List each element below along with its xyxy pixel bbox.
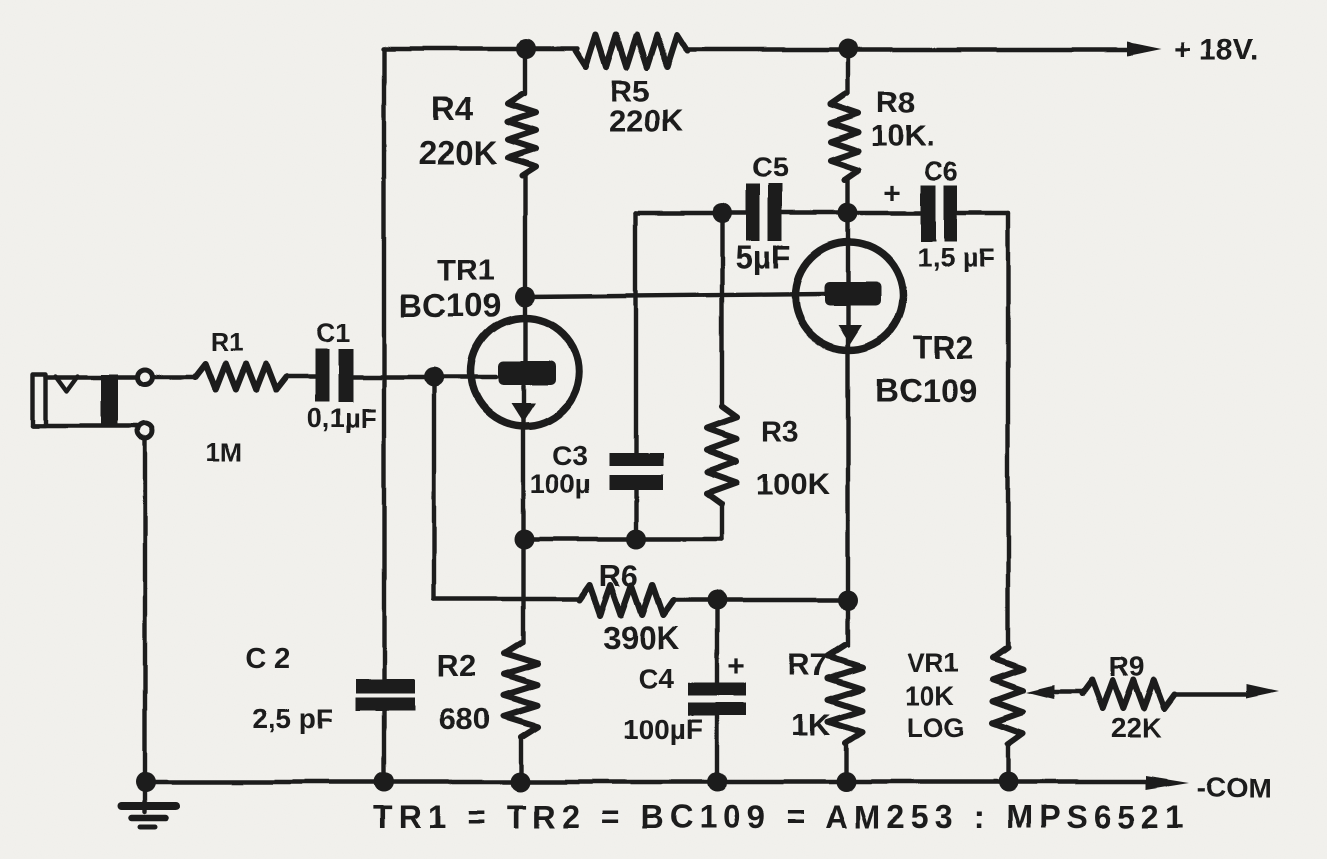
svg-text:680: 680	[439, 701, 491, 736]
svg-text:+ 18V.: + 18V.	[1174, 34, 1259, 67]
svg-text:5µF: 5µF	[735, 239, 791, 275]
svg-text:LOG: LOG	[907, 713, 966, 743]
svg-text:BC109: BC109	[875, 372, 978, 409]
svg-text:C1: C1	[316, 318, 351, 348]
svg-text:BC109: BC109	[399, 287, 502, 324]
svg-text:220K: 220K	[609, 103, 684, 138]
svg-text:C3: C3	[552, 440, 588, 471]
svg-text:1M: 1M	[206, 437, 242, 467]
svg-text:C5: C5	[752, 152, 788, 183]
svg-text:C6: C6	[924, 156, 957, 186]
svg-text:TR1: TR1	[438, 254, 495, 287]
svg-text:100K: 100K	[756, 466, 831, 501]
svg-text:10K.: 10K.	[871, 120, 934, 153]
svg-text:100µF: 100µF	[623, 714, 703, 745]
svg-text:R4: R4	[431, 90, 474, 127]
svg-text:R2: R2	[437, 648, 477, 683]
svg-text:R9: R9	[1109, 651, 1145, 682]
svg-text:2,5 pF: 2,5 pF	[253, 703, 334, 734]
svg-text:R7: R7	[788, 647, 828, 682]
svg-text:R1: R1	[210, 327, 243, 357]
svg-text:100µ: 100µ	[530, 469, 591, 499]
svg-text:C4: C4	[638, 663, 674, 694]
svg-text:C 2: C 2	[245, 643, 290, 675]
svg-text:VR1: VR1	[907, 648, 960, 678]
svg-text:22K: 22K	[1110, 712, 1161, 743]
svg-text:TR2: TR2	[913, 329, 973, 365]
svg-text:+: +	[727, 650, 745, 683]
svg-text:1K: 1K	[791, 707, 831, 742]
svg-text:R6: R6	[599, 558, 639, 593]
svg-text:R3: R3	[761, 416, 798, 448]
svg-text:R8: R8	[877, 87, 915, 120]
svg-text:10K: 10K	[905, 681, 955, 711]
svg-text:220K: 220K	[419, 134, 498, 171]
svg-text:-COM: -COM	[1197, 772, 1272, 803]
svg-text:0,1µF: 0,1µF	[307, 403, 377, 433]
svg-text:390K: 390K	[603, 620, 680, 656]
svg-text:+: +	[884, 177, 902, 210]
svg-text:1,5 µF: 1,5 µF	[917, 243, 994, 273]
